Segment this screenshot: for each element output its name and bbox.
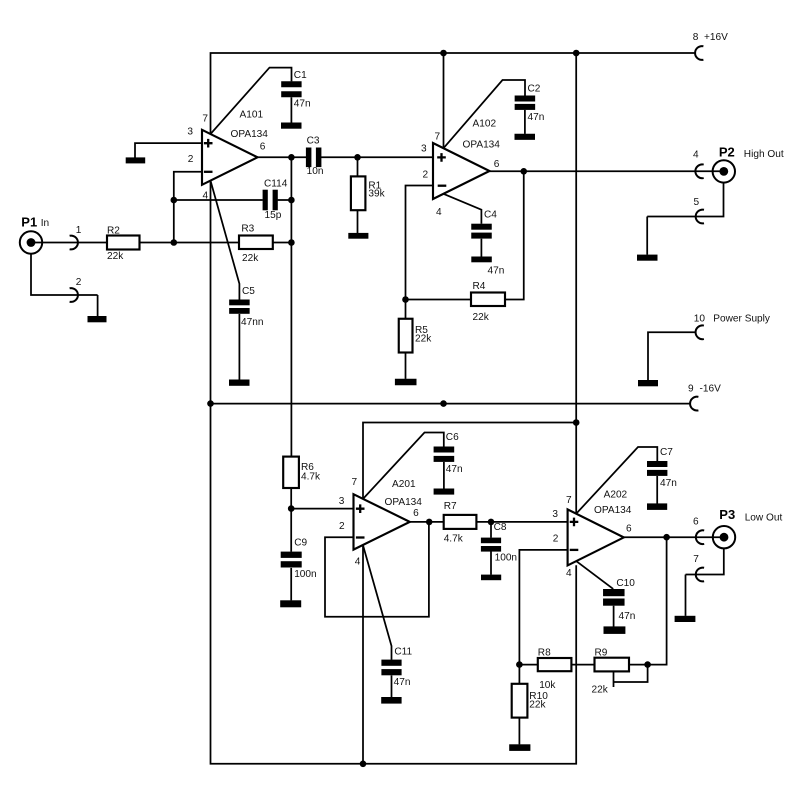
svg-text:39k: 39k	[368, 188, 385, 199]
svg-text:OPA134: OPA134	[385, 497, 423, 508]
svg-text:100n: 100n	[495, 553, 517, 564]
svg-text:3: 3	[421, 144, 427, 155]
svg-text:7: 7	[202, 114, 208, 125]
svg-text:6: 6	[693, 517, 699, 528]
svg-text:P1: P1	[21, 214, 37, 229]
svg-text:R8: R8	[538, 648, 551, 659]
svg-text:22k: 22k	[473, 312, 490, 323]
svg-text:A201: A201	[392, 479, 416, 490]
svg-text:22k: 22k	[415, 334, 432, 345]
svg-text:R7: R7	[444, 501, 457, 512]
svg-text:A102: A102	[473, 119, 497, 130]
svg-text:C9: C9	[294, 538, 307, 549]
svg-text:47n: 47n	[446, 464, 463, 475]
svg-text:OPA134: OPA134	[231, 129, 269, 140]
svg-text:C6: C6	[446, 432, 459, 443]
svg-text:C11: C11	[394, 647, 412, 658]
svg-text:R4: R4	[473, 281, 486, 292]
svg-text:47n: 47n	[394, 677, 411, 688]
svg-text:7: 7	[435, 132, 441, 143]
svg-text:4: 4	[566, 568, 572, 579]
svg-text:Power Suply: Power Suply	[713, 314, 771, 325]
svg-text:47n: 47n	[488, 266, 505, 277]
svg-text:47n: 47n	[660, 478, 677, 489]
svg-text:A202: A202	[604, 489, 628, 500]
svg-text:P3: P3	[719, 507, 735, 522]
svg-text:3: 3	[339, 496, 345, 507]
svg-text:4.7k: 4.7k	[444, 534, 464, 545]
svg-text:6: 6	[413, 508, 419, 519]
svg-text:+16V: +16V	[704, 32, 728, 43]
svg-text:22k: 22k	[107, 251, 124, 262]
svg-text:4: 4	[436, 207, 442, 218]
svg-text:22k: 22k	[529, 700, 546, 711]
svg-text:OPA134: OPA134	[463, 140, 501, 151]
svg-text:C10: C10	[616, 578, 635, 589]
svg-text:6: 6	[260, 142, 266, 153]
svg-text:C114: C114	[264, 179, 288, 190]
svg-text:10: 10	[694, 314, 706, 325]
svg-text:47n: 47n	[528, 112, 545, 123]
svg-text:47n: 47n	[294, 99, 311, 110]
svg-text:4: 4	[203, 191, 209, 202]
svg-text:3: 3	[552, 509, 558, 520]
svg-text:2: 2	[553, 534, 559, 545]
svg-text:5: 5	[694, 197, 700, 208]
svg-text:C7: C7	[660, 447, 673, 458]
svg-text:6: 6	[494, 159, 500, 170]
svg-text:R3: R3	[241, 223, 254, 234]
svg-text:R2: R2	[107, 226, 120, 237]
svg-text:2: 2	[339, 521, 345, 532]
svg-text:3: 3	[187, 126, 193, 137]
svg-text:100n: 100n	[294, 569, 316, 580]
svg-text:C5: C5	[242, 286, 255, 297]
svg-text:10k: 10k	[539, 680, 556, 691]
svg-text:9: 9	[688, 384, 694, 395]
svg-text:7: 7	[352, 477, 358, 488]
svg-text:C4: C4	[484, 210, 497, 221]
svg-text:6: 6	[626, 523, 632, 534]
svg-text:4: 4	[693, 150, 699, 161]
svg-text:15p: 15p	[265, 210, 282, 221]
svg-text:R9: R9	[595, 648, 608, 659]
svg-text:Low Out: Low Out	[745, 512, 783, 523]
svg-text:C8: C8	[494, 522, 507, 533]
svg-text:4.7k: 4.7k	[301, 472, 321, 483]
svg-text:-16V: -16V	[700, 384, 722, 395]
svg-text:10n: 10n	[307, 166, 324, 177]
svg-text:47nn: 47nn	[241, 317, 263, 328]
svg-text:OPA134: OPA134	[594, 505, 632, 516]
svg-text:1: 1	[76, 225, 82, 236]
svg-text:7: 7	[693, 554, 699, 565]
svg-text:4: 4	[355, 557, 361, 568]
svg-text:2: 2	[188, 154, 194, 165]
svg-text:22k: 22k	[592, 685, 609, 696]
svg-text:7: 7	[566, 495, 572, 506]
svg-text:P2: P2	[719, 144, 735, 159]
svg-text:2: 2	[423, 170, 429, 181]
svg-text:High Out: High Out	[744, 149, 784, 160]
svg-text:A101: A101	[240, 110, 264, 121]
svg-text:C1: C1	[294, 70, 307, 81]
svg-text:C3: C3	[307, 136, 320, 147]
svg-text:In: In	[41, 218, 49, 229]
svg-text:2: 2	[76, 277, 82, 288]
svg-text:C2: C2	[528, 84, 541, 95]
svg-text:47n: 47n	[619, 611, 636, 622]
svg-text:22k: 22k	[242, 253, 259, 264]
svg-text:8: 8	[693, 32, 699, 43]
